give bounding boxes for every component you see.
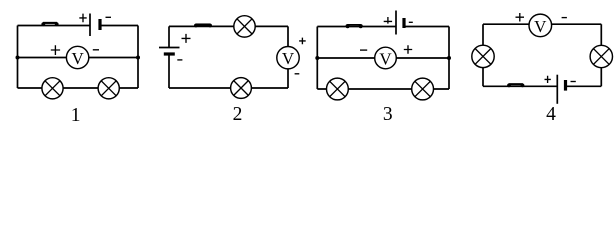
svg-text:4: 4 (546, 104, 556, 125)
svg-text:V: V (71, 49, 84, 68)
svg-text:3: 3 (383, 104, 393, 125)
svg-text:V: V (282, 49, 295, 68)
svg-text:V: V (534, 17, 547, 36)
svg-text:1: 1 (71, 105, 81, 126)
svg-text:2: 2 (233, 104, 243, 125)
svg-text:V: V (379, 49, 392, 68)
